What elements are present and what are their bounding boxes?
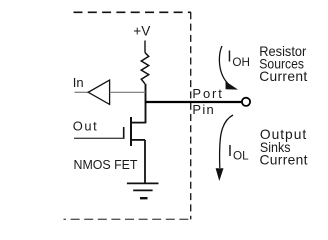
ground bar 1 xyxy=(127,182,159,184)
svg-text:NMOS FET: NMOS FET xyxy=(74,157,138,172)
ground bar 3 xyxy=(140,197,148,199)
IC boundary dashed top edge xyxy=(74,11,192,13)
ground bar 2 xyxy=(133,189,152,191)
transistor Q1 drain stub xyxy=(131,122,146,124)
svg-text:Pin: Pin xyxy=(192,102,213,117)
wire buffer to node xyxy=(110,91,146,93)
IOL arrowhead xyxy=(216,168,224,181)
wire +V to resistor R1 xyxy=(144,41,146,53)
port pin open circle xyxy=(242,98,250,106)
svg-text:Port: Port xyxy=(192,86,222,101)
svg-text:In: In xyxy=(73,75,84,90)
svg-text:Out: Out xyxy=(73,119,97,134)
transistor Q1 source stub xyxy=(131,139,145,141)
wire resistor to node / port rail xyxy=(145,84,147,124)
svg-text:OH: OH xyxy=(232,56,250,69)
transistor Q1 channel bar xyxy=(130,117,132,146)
resistor R1 (pull-up) xyxy=(141,53,148,84)
svg-text:I: I xyxy=(228,143,232,160)
IOH current arrow arc xyxy=(219,46,227,83)
wire source to ground xyxy=(144,140,146,184)
wire Out to gate xyxy=(74,137,124,139)
wire In to buffer apex xyxy=(75,91,89,93)
svg-text:I: I xyxy=(227,49,231,66)
svg-text:+V: +V xyxy=(133,23,150,38)
transistor Q1 gate plate xyxy=(123,127,125,139)
IOH arrowhead xyxy=(226,81,239,89)
IC boundary dashed right edge xyxy=(190,12,192,219)
wire port pin xyxy=(146,101,243,103)
IOL current arrow arc xyxy=(220,115,233,168)
IC boundary dashed bottom edge xyxy=(64,218,192,220)
svg-text:OL: OL xyxy=(233,150,249,163)
input buffer U1 (triangle) xyxy=(88,80,109,104)
svg-text:Current: Current xyxy=(260,153,308,168)
svg-text:Current: Current xyxy=(259,69,307,84)
